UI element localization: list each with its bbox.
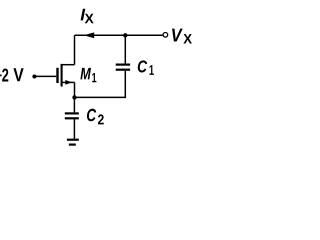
capacitor C2 lower vertical wire (73, 119, 75, 138)
wire: top horizontal (drain to output terminal) (75, 34, 163, 36)
label C2 (87, 109, 104, 125)
label C1 (138, 60, 154, 74)
transistor M1 drain stub (62, 64, 75, 66)
node: 2V input dot (32, 75, 36, 79)
node: junction dot on top wire (123, 33, 127, 37)
wire: drain vertical (74, 35, 76, 64)
capacitor C1 plates (116, 63, 130, 65)
wire: source vertical down (74, 82, 76, 97)
label 2 V with clipped plus sign at edge (0, 68, 24, 81)
label IX (81, 9, 94, 24)
current arrow IX (points left on top wire) (84, 32, 95, 38)
terminal: open circle VX (163, 33, 168, 38)
capacitor C1 branch: lower vertical wire (124, 71, 126, 98)
transistor M1 source arrow (points right) (65, 80, 72, 85)
capacitor C2 branch: upper vertical wire (73, 97, 75, 112)
capacitor C1 branch: upper vertical wire (124, 35, 126, 63)
label M1 (80, 68, 96, 82)
node: source junction dot (72, 95, 76, 99)
wire: gate lead from 2V node (34, 75, 56, 77)
transistor M1 (NMOS) gate bar (56, 68, 58, 83)
transistor M1 source stub (62, 81, 75, 83)
ground symbol (67, 140, 79, 145)
transistor M1 channel bar (61, 64, 63, 87)
capacitor C2 plates (65, 112, 79, 114)
wire: bottom horizontal (source node to C1 bottom) (75, 96, 127, 98)
label VX (172, 29, 192, 44)
